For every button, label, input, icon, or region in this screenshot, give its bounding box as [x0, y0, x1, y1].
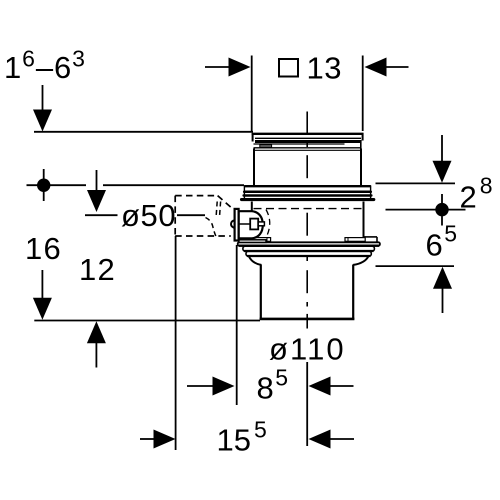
svg-text:12: 12 — [79, 252, 116, 287]
svg-text:13: 13 — [307, 51, 342, 86]
svg-text:ø110: ø110 — [269, 332, 346, 367]
svg-text:ø50: ø50 — [121, 198, 176, 233]
svg-text:16: 16 — [25, 231, 62, 266]
